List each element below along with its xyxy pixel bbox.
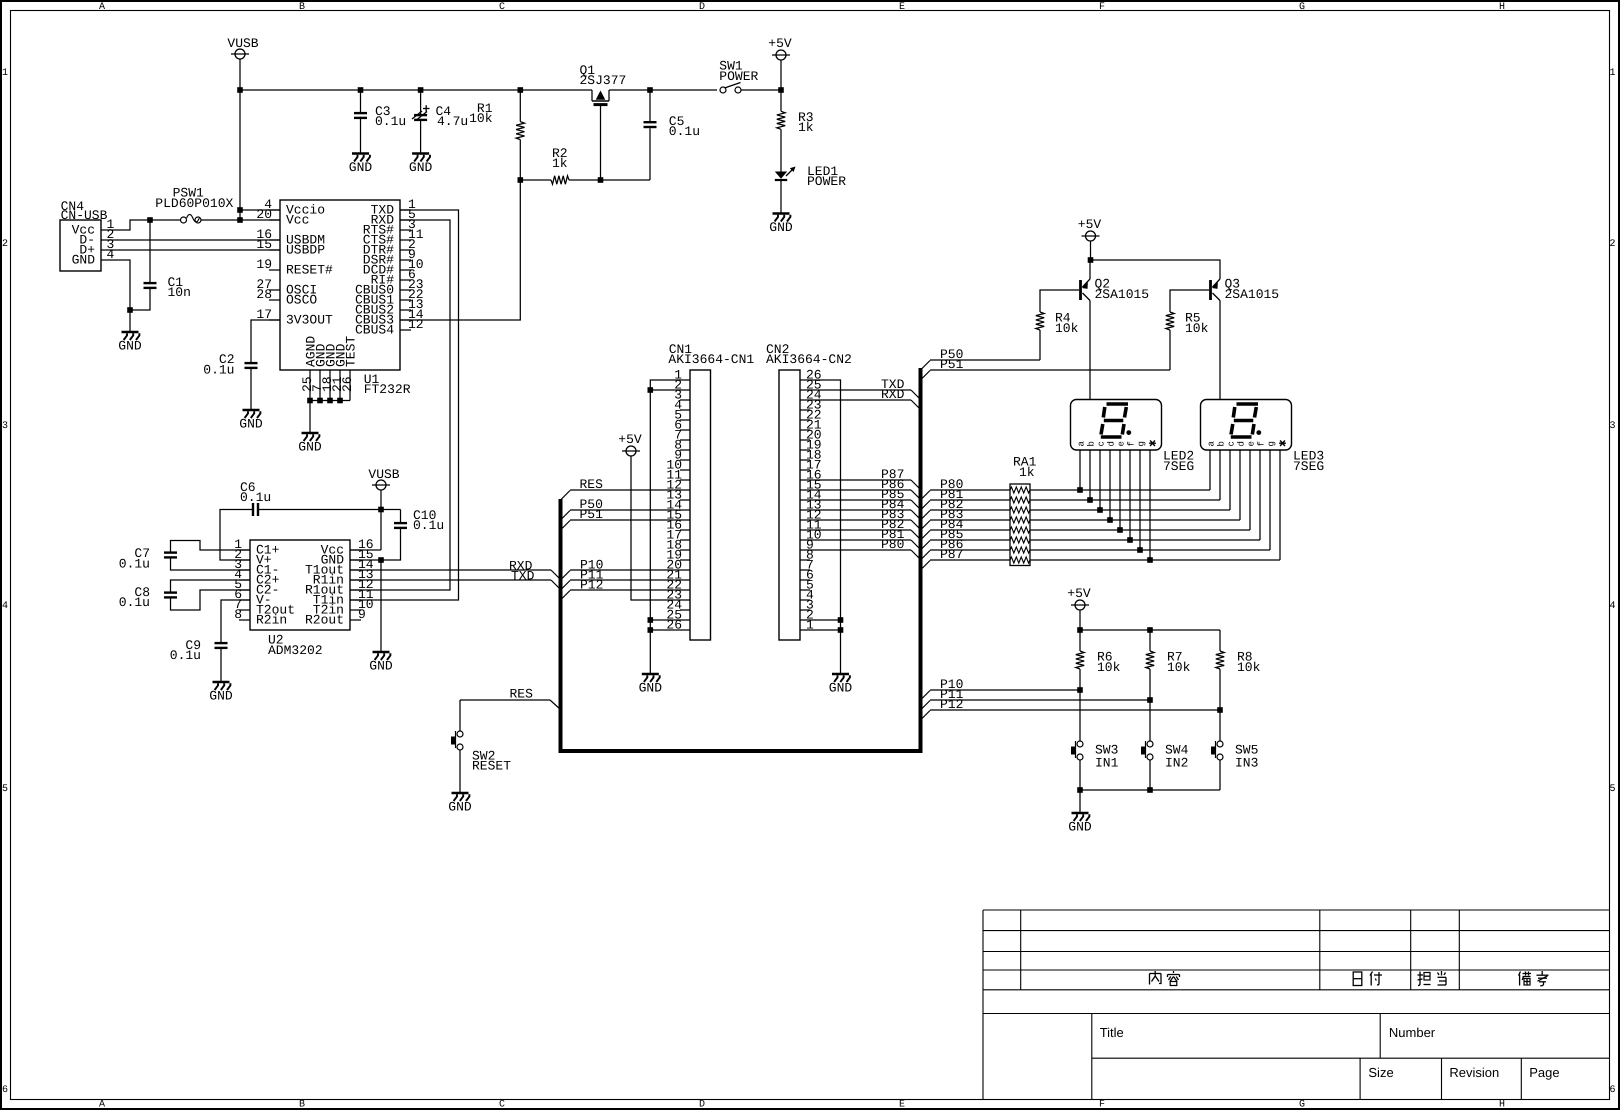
power symbol +5V <box>768 36 792 93</box>
switch SW1 POWER <box>719 59 758 94</box>
svg-text:10k: 10k <box>1185 321 1209 336</box>
resistor R5 <box>1166 290 1209 370</box>
svg-text:GND: GND <box>769 220 793 235</box>
svg-text:P80: P80 <box>881 537 904 552</box>
ground <box>369 652 393 674</box>
resistor R7 <box>1146 630 1191 700</box>
wire CBUS3 to R2 <box>400 180 520 320</box>
svg-text:19: 19 <box>256 257 272 272</box>
svg-text:8: 8 <box>234 607 242 622</box>
wire P84 CN2 to bus <box>800 497 921 520</box>
svg-text:+5V: +5V <box>618 432 642 447</box>
capacitor C1 <box>130 220 191 310</box>
svg-text:RES: RES <box>580 477 604 492</box>
title block <box>983 909 1610 911</box>
svg-text:1: 1 <box>1609 68 1615 79</box>
wire +5V to pullups <box>1080 627 1220 633</box>
ground <box>349 154 373 176</box>
wire TXD to bus <box>350 569 561 590</box>
resistor R3 <box>777 90 814 172</box>
transistor Q1 2SJ377 <box>580 63 627 180</box>
svg-text:5: 5 <box>1609 784 1615 795</box>
svg-text:IN1: IN1 <box>1095 756 1119 771</box>
wire P82 CN2 to bus <box>800 517 921 540</box>
svg-text:R2out: R2out <box>305 613 344 628</box>
resistor R6 <box>1076 630 1121 690</box>
svg-text:10k: 10k <box>469 111 493 126</box>
svg-text:20: 20 <box>256 207 272 222</box>
svg-text:B: B <box>299 1100 305 1110</box>
wire P84 bus to displays <box>921 517 1251 540</box>
svg-text:Revision: Revision <box>1449 1065 1499 1080</box>
svg-text:d: d <box>1237 441 1247 446</box>
svg-text:1k: 1k <box>798 120 814 135</box>
wire P80 CN2 to bus <box>800 537 921 560</box>
svg-text:e: e <box>1117 441 1127 446</box>
svg-text:0.1u: 0.1u <box>203 363 234 378</box>
svg-text:7SEG: 7SEG <box>1293 459 1324 474</box>
power symbol VUSB <box>368 467 399 550</box>
svg-text:GND: GND <box>72 253 96 268</box>
wire P51 bus to R5 <box>921 357 1171 380</box>
svg-text:ADM3202: ADM3202 <box>268 643 323 658</box>
svg-text:TEST: TEST <box>344 336 359 367</box>
svg-text:10k: 10k <box>1167 660 1191 675</box>
svg-text:10n: 10n <box>168 285 191 300</box>
svg-text:1: 1 <box>2 68 8 79</box>
switch SW4 IN2 <box>1141 700 1189 790</box>
svg-text:f: f <box>1127 441 1137 446</box>
svg-text:9: 9 <box>358 607 366 622</box>
svg-text:GND: GND <box>639 681 663 696</box>
power symbol +5V <box>1067 586 1091 633</box>
wire fuse to U1 Vcc <box>201 219 280 221</box>
svg-text:D: D <box>699 1100 705 1110</box>
svg-text:f: f <box>1257 441 1267 446</box>
svg-text:Vcc: Vcc <box>286 213 309 228</box>
svg-text:A: A <box>99 1100 105 1110</box>
wire LED1 to GND <box>780 180 782 214</box>
svg-text:GND: GND <box>369 659 393 674</box>
wire USBDP <box>101 249 280 251</box>
svg-text:2SJ377: 2SJ377 <box>580 73 627 88</box>
ground <box>239 410 263 432</box>
wire U1 Vccio <box>240 209 280 211</box>
svg-text:IN3: IN3 <box>1235 756 1258 771</box>
capacitor C10 <box>381 508 444 560</box>
resistor R2 <box>551 146 569 184</box>
ground <box>118 332 142 354</box>
wire P10 to CN1 <box>561 558 691 581</box>
svg-text:6: 6 <box>2 1085 8 1096</box>
svg-text:POWER: POWER <box>807 174 846 189</box>
wire P83 bus to displays <box>921 507 1241 530</box>
wire P82 bus to displays <box>921 497 1231 520</box>
svg-text:P12: P12 <box>580 578 603 593</box>
7seg display LED2 <box>1071 400 1195 475</box>
svg-text:POWER: POWER <box>719 69 758 84</box>
ground <box>448 793 472 815</box>
svg-text:P51: P51 <box>580 507 604 522</box>
switch SW2 RESET <box>451 700 511 793</box>
svg-text:H: H <box>1499 2 1505 13</box>
svg-text:AKI3664-CN1: AKI3664-CN1 <box>668 352 754 367</box>
power symbol +5V <box>618 432 690 600</box>
wire TXD CN2 to bus <box>800 377 921 400</box>
capacitor C3 <box>354 90 406 154</box>
svg-text:RESET: RESET <box>472 759 511 774</box>
svg-text:IN2: IN2 <box>1165 756 1188 771</box>
svg-text:1k: 1k <box>552 156 568 171</box>
wire U2 Vcc <box>350 507 384 550</box>
resistor R8 <box>1216 630 1261 710</box>
svg-text:2: 2 <box>2 239 8 250</box>
ground <box>769 214 793 236</box>
svg-text:Size: Size <box>1368 1065 1393 1080</box>
svg-text:E: E <box>899 1100 905 1110</box>
svg-text:28: 28 <box>256 287 272 302</box>
svg-text:R2in: R2in <box>256 613 287 628</box>
wire P81 bus to displays <box>921 487 1221 510</box>
svg-text:A: A <box>99 2 105 13</box>
resistor array RA1 <box>1010 455 1037 566</box>
svg-text:10k: 10k <box>1055 321 1079 336</box>
svg-text:15: 15 <box>256 237 272 252</box>
capacitor C9 <box>170 600 250 682</box>
svg-text:a: a <box>1207 441 1217 447</box>
wire +5V to Q2 Q3 emitters <box>1091 259 1221 261</box>
svg-text:GND: GND <box>298 440 322 455</box>
svg-text:g: g <box>1267 441 1277 446</box>
capacitor C8 <box>119 580 250 610</box>
svg-text:3V3OUT: 3V3OUT <box>286 313 333 328</box>
svg-text:F: F <box>1099 2 1105 13</box>
svg-text:GND: GND <box>1068 820 1092 835</box>
svg-text:GND: GND <box>349 160 373 175</box>
wire RXD CN2 to bus <box>800 387 921 410</box>
wire U1 ground pins <box>307 398 350 433</box>
wire P50 bus to R4 <box>921 347 1041 370</box>
svg-text:1k: 1k <box>1019 465 1035 480</box>
wire RES SW2 to bus <box>460 687 561 710</box>
wire RXD to bus <box>350 559 561 580</box>
transistor Q2 2SA1015 <box>1081 260 1150 400</box>
ground <box>209 682 233 704</box>
svg-text:GND: GND <box>409 160 433 175</box>
wire CN2 ground pins <box>800 380 843 674</box>
LED1 POWER <box>775 164 846 189</box>
wire P80 bus to displays <box>921 477 1211 500</box>
svg-text:VUSB: VUSB <box>227 36 258 51</box>
svg-text:C: C <box>499 2 505 13</box>
wire CN1 ground pins <box>648 380 691 674</box>
ground <box>639 674 663 696</box>
svg-text:e: e <box>1247 441 1257 446</box>
svg-text:2SA1015: 2SA1015 <box>1225 287 1280 302</box>
svg-text:P12: P12 <box>940 697 963 712</box>
svg-text:GND: GND <box>239 417 263 432</box>
svg-text:H: H <box>1499 1100 1505 1110</box>
power symbol +5V <box>1078 217 1102 263</box>
svg-text:USBDP: USBDP <box>286 243 325 258</box>
svg-text:0.1u: 0.1u <box>669 124 700 139</box>
IC U2 ADM3202 <box>234 537 374 658</box>
svg-text:b: b <box>1087 441 1097 446</box>
svg-text:c: c <box>1097 441 1107 446</box>
capacitor C5 <box>644 90 701 139</box>
power symbol VUSB <box>227 36 258 90</box>
svg-text:D: D <box>699 2 705 13</box>
svg-text:RES: RES <box>510 687 534 702</box>
svg-text:5: 5 <box>2 784 8 795</box>
7seg display LED3 <box>1201 400 1325 475</box>
ground <box>829 674 853 696</box>
svg-text:VUSB: VUSB <box>368 467 399 482</box>
resistor R4 <box>1036 290 1079 360</box>
svg-text:OSCO: OSCO <box>286 293 317 308</box>
svg-text:+5V: +5V <box>1078 217 1102 232</box>
svg-text:6: 6 <box>1609 1085 1615 1096</box>
wire P85 CN2 to bus <box>800 487 921 510</box>
wire U2 GND <box>350 557 384 652</box>
svg-text:c: c <box>1227 441 1237 446</box>
capacitor C6 <box>220 480 401 560</box>
capacitor C4 polarized <box>412 90 468 154</box>
wire P86 CN2 to bus <box>800 477 921 500</box>
svg-text:GND: GND <box>209 689 233 704</box>
wire TXD net U1 to U2 <box>350 210 459 600</box>
svg-text:12: 12 <box>408 317 424 332</box>
wire VUSB to U1 Vcc <box>237 90 243 223</box>
svg-text:TXD: TXD <box>511 569 535 584</box>
connector CN2 AKI3664-CN2 <box>766 342 852 640</box>
wire P86 bus to displays <box>921 537 1271 560</box>
svg-text:CBUS4: CBUS4 <box>355 323 394 338</box>
svg-text:RESET#: RESET# <box>286 263 333 278</box>
wire USBDM <box>101 239 280 241</box>
ground <box>1068 813 1092 835</box>
capacitor C2 <box>203 320 280 410</box>
svg-text:3: 3 <box>2 421 8 432</box>
svg-text:3: 3 <box>1609 421 1615 432</box>
svg-text:a: a <box>1077 441 1087 447</box>
svg-text:b: b <box>1217 441 1227 446</box>
wire P85 bus to displays <box>921 527 1261 550</box>
svg-text:d: d <box>1107 441 1117 446</box>
switch SW3 IN1 <box>1071 690 1119 790</box>
svg-text:7SEG: 7SEG <box>1163 459 1194 474</box>
wire P83 CN2 to bus <box>800 507 921 530</box>
wire P87 CN2 to bus <box>800 467 921 490</box>
svg-text:4.7u: 4.7u <box>437 114 468 129</box>
svg-text:G: G <box>1299 1100 1305 1110</box>
wire P51 to CN1 <box>561 507 691 530</box>
wire switches to GND <box>1077 787 1220 813</box>
wire RXD net U1 to U2 <box>350 220 450 590</box>
svg-text:B: B <box>299 2 305 13</box>
svg-text:GND: GND <box>448 800 472 815</box>
wire P12 to CN1 <box>561 578 691 601</box>
svg-text:0.1u: 0.1u <box>119 557 150 572</box>
svg-text:0.1u: 0.1u <box>375 114 406 129</box>
ground <box>409 154 433 176</box>
wire VUSB rail <box>237 87 781 93</box>
svg-text:RXD: RXD <box>881 387 905 402</box>
ground <box>298 433 322 455</box>
svg-text:F: F <box>1099 1100 1105 1110</box>
fuse PSW1 PLD60P010X <box>155 186 233 224</box>
connector CN4 CN-USB <box>60 199 115 271</box>
svg-text:FT232R: FT232R <box>364 382 411 397</box>
svg-text:0.1u: 0.1u <box>240 490 271 505</box>
transistor Q3 2SA1015 <box>1211 260 1280 400</box>
wire P11 bus to SW4 <box>921 687 1153 710</box>
svg-text:C: C <box>499 1100 505 1110</box>
svg-text:PLD60P010X: PLD60P010X <box>155 196 233 211</box>
wire P50 to CN1 <box>561 497 691 520</box>
wire CN4 GND <box>101 260 133 332</box>
svg-text:P87: P87 <box>940 547 963 562</box>
capacitor C7 <box>119 541 250 572</box>
svg-text:0.1u: 0.1u <box>413 518 444 533</box>
wire R2 to Q1 gate and C5 <box>569 128 650 183</box>
IC U1 FT232R <box>256 197 423 401</box>
wire CN4 Vcc to fuse <box>101 217 181 230</box>
wire LED3 pins <box>1210 450 1280 560</box>
wire P11 to CN1 <box>561 568 691 591</box>
wire P87 bus to displays <box>921 547 1281 570</box>
wire R1-R2 node <box>518 177 552 183</box>
svg-text:G: G <box>1299 2 1305 13</box>
svg-text:P51: P51 <box>940 357 964 372</box>
svg-text:4: 4 <box>2 601 8 612</box>
wire RES to CN1 <box>561 477 691 500</box>
svg-text:GND: GND <box>829 681 853 696</box>
svg-text:g: g <box>1137 441 1147 446</box>
svg-text:2: 2 <box>1609 239 1615 250</box>
wire P10 bus to SW3 <box>921 677 1083 700</box>
svg-text:10k: 10k <box>1097 660 1121 675</box>
svg-text:4: 4 <box>1609 601 1615 612</box>
wire P12 bus to SW5 <box>921 697 1223 720</box>
wire LED2 pins <box>1077 450 1153 563</box>
svg-text:Title: Title <box>1100 1025 1124 1040</box>
svg-text:0.1u: 0.1u <box>119 595 150 610</box>
svg-text:E: E <box>899 2 905 13</box>
svg-text:+5V: +5V <box>768 36 792 51</box>
connector CN1 AKI3664-CN1 <box>666 342 754 640</box>
bus AKI3664 board outline <box>561 368 921 751</box>
svg-text:Page: Page <box>1529 1065 1559 1080</box>
svg-text:+5V: +5V <box>1067 586 1091 601</box>
svg-text:0.1u: 0.1u <box>170 648 201 663</box>
resistor R1 <box>469 90 524 180</box>
svg-text:CN-USB: CN-USB <box>61 208 108 223</box>
svg-text:GND: GND <box>118 339 142 354</box>
svg-text:2SA1015: 2SA1015 <box>1095 287 1150 302</box>
svg-text:26: 26 <box>340 376 355 392</box>
wire P81 CN2 to bus <box>800 527 921 550</box>
switch SW5 IN3 <box>1211 710 1258 790</box>
svg-text:Number: Number <box>1389 1025 1436 1040</box>
svg-text:10k: 10k <box>1237 660 1261 675</box>
svg-text:AKI3664-CN2: AKI3664-CN2 <box>766 352 852 367</box>
